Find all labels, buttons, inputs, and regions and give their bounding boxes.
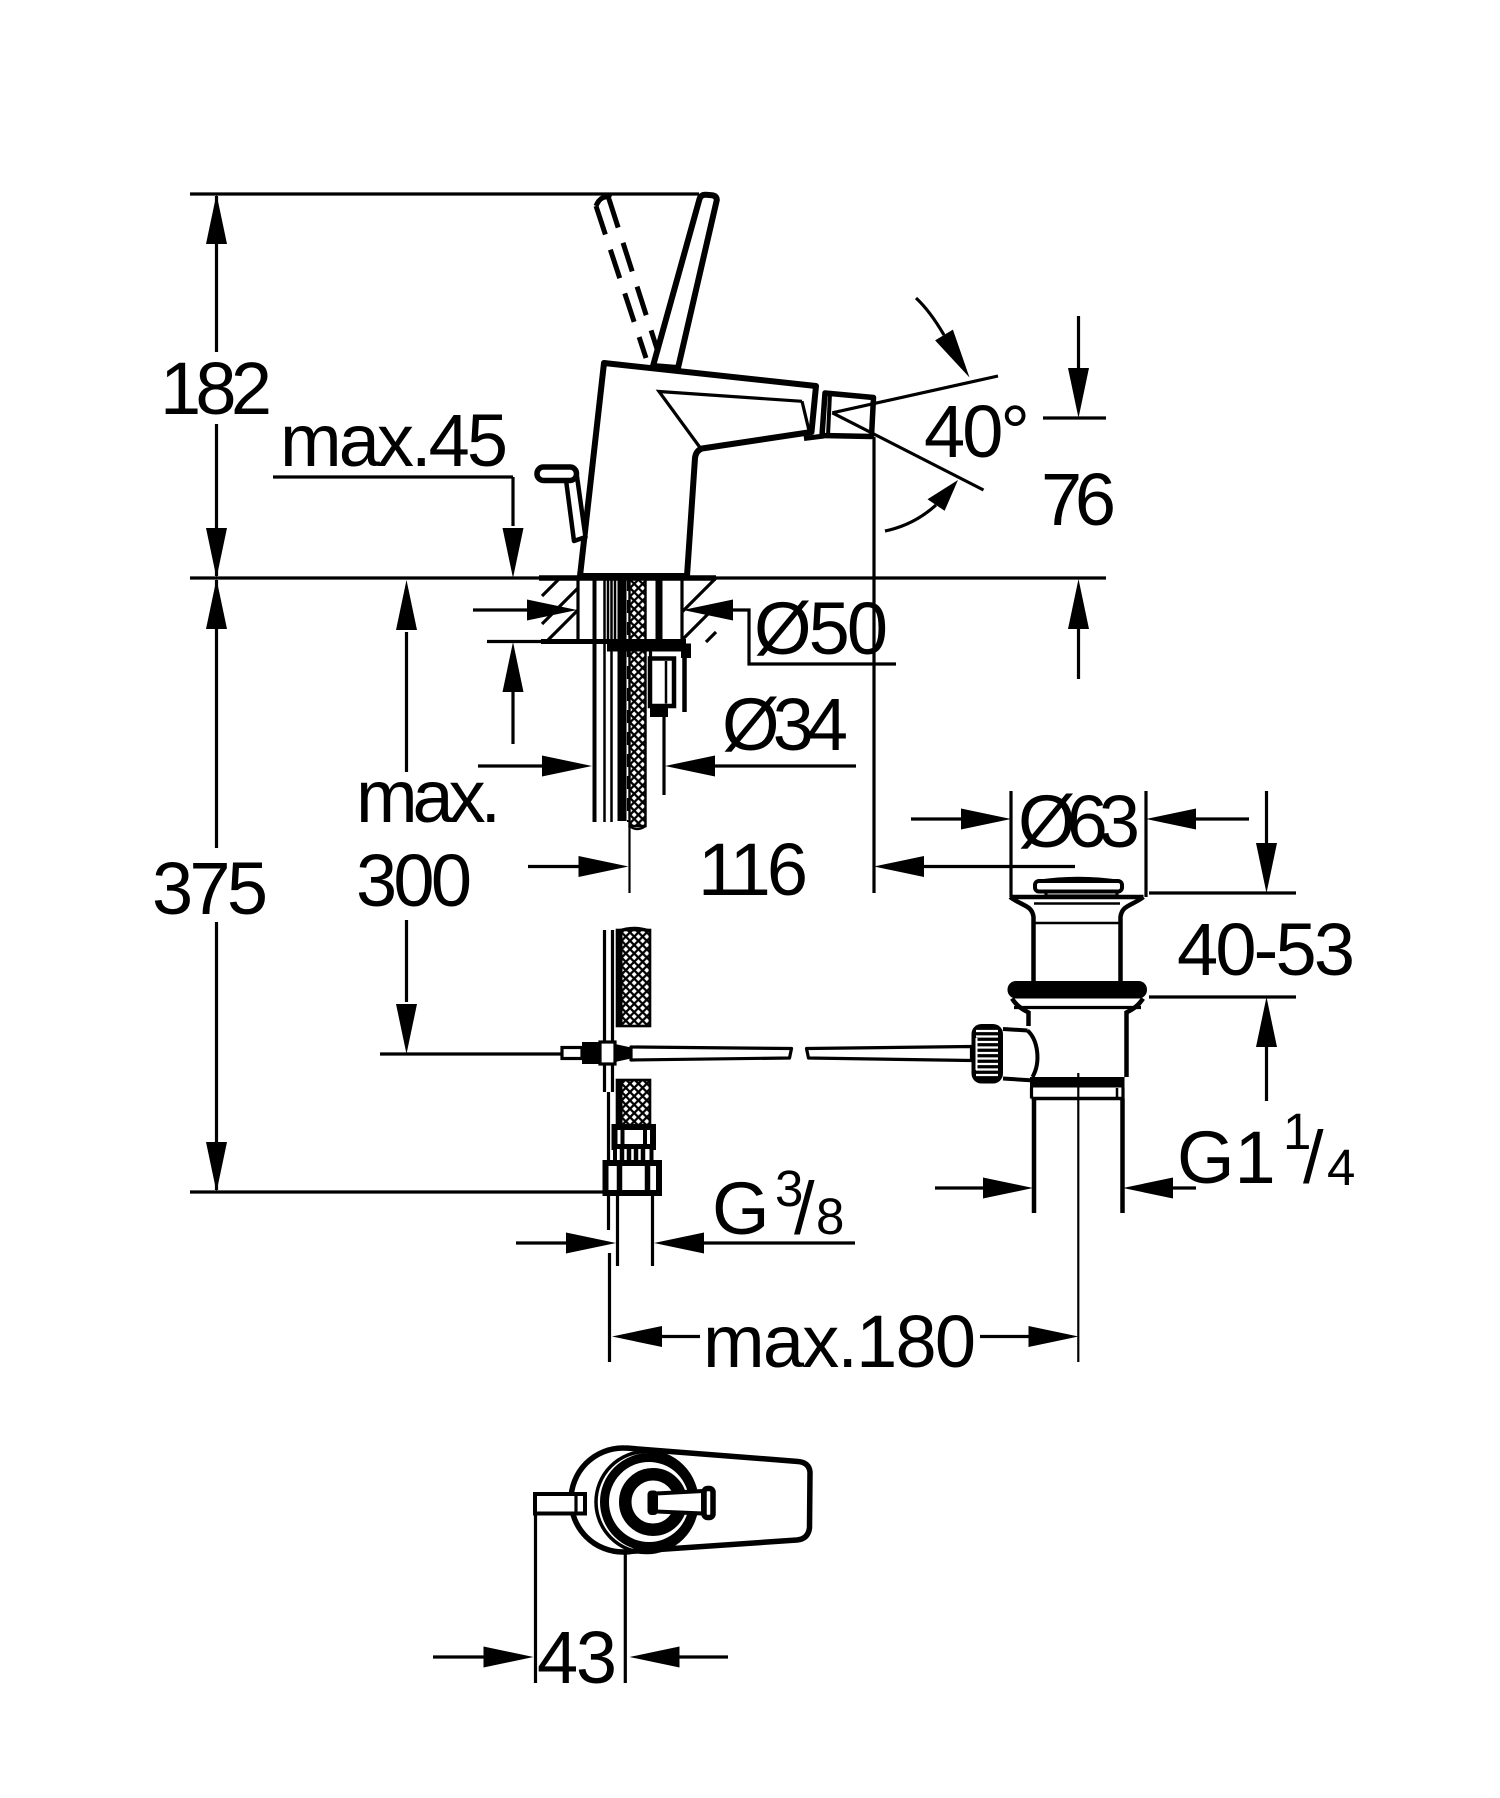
svg-text:40°: 40° [924,390,1030,473]
drain O-ring [1008,981,1148,999]
svg-text:43: 43 [537,1616,617,1699]
hose ribbed section [615,1147,652,1163]
svg-text:375: 375 [152,847,268,930]
svg-text:max.45: max.45 [280,399,508,482]
pop-up rod vertical guide [605,930,613,1092]
dimension 182 [160,194,272,578]
svg-text:Ø63: Ø63 [1018,780,1140,863]
drain centerline [1077,1073,1079,1362]
countertop reference line [190,576,1106,579]
dimension 76 [1041,316,1116,679]
countertop section hatching right [682,578,716,642]
svg-text:116: 116 [698,828,808,911]
dimension G 3/8 [516,1160,855,1254]
dimension 375 [152,579,268,1192]
svg-text:300: 300 [356,839,472,922]
dimension G1 1/4 [935,1103,1355,1199]
temperature lever [537,467,586,541]
drain plunger cap [1035,879,1122,897]
shank dashed centerline [627,578,629,822]
top view body outline [571,1448,810,1552]
svg-text:8: 8 [816,1188,844,1245]
top view pin [535,1494,585,1514]
faucet spout inner face [659,392,810,448]
dimension D50 [473,587,896,670]
faucet centerline extension [628,826,630,893]
dimension max.45 [273,399,524,744]
svg-text:G1: G1 [1177,1116,1276,1199]
aerator tip [822,393,874,437]
svg-text:G: G [712,1167,770,1250]
svg-text:/: / [794,1167,815,1250]
hose collar nut [615,1127,654,1147]
pop-up rod clamp [562,1042,631,1064]
shank right black line [656,578,663,642]
dimension max.180 [610,1253,1079,1383]
top view outer ring [596,1452,697,1553]
svg-text:max.180: max.180 [703,1300,976,1383]
pop-up rod lower extension [607,1092,610,1230]
top view inner ring [625,1474,681,1530]
supply hose braid (upper segment) [630,578,646,829]
supply hose braid (lower segment) [617,928,650,1127]
drain valve collar [1003,1029,1037,1081]
svg-text:182: 182 [160,347,272,430]
countertop section hatching left [542,578,578,642]
horizontal pop-up rod (left segment) [631,1047,792,1060]
svg-text:40-53: 40-53 [1177,908,1355,991]
extension line top (182 upper reference) [190,192,699,195]
svg-text:4: 4 [1327,1139,1355,1196]
handle (dashed alternate position) [596,197,658,358]
drain body bottom rings [1030,1077,1125,1099]
drain knurled knob [972,1024,1004,1084]
top view stem [648,1489,714,1518]
drain tailpipe [1034,1099,1123,1214]
drain body top and neck [1010,897,1144,981]
mounting hole edges [578,578,682,642]
dimension D63 [911,780,1249,897]
dimension D34 [478,683,856,777]
dimension 43 [433,1514,728,1700]
drain body flange and sides [1012,999,1143,1078]
top view thick ring [605,1458,694,1547]
countertop section bottom edge [487,640,686,643]
svg-text:Ø50: Ø50 [754,587,888,670]
mounting washer [607,644,691,713]
dimension max.300 [356,580,564,1054]
hose hex nut [606,1163,660,1193]
dimension 40-53 [1149,791,1355,1101]
handle (solid position) [653,195,717,368]
faucet body [580,363,824,576]
pop-up rod housing (black column) [618,578,627,821]
svg-text:76: 76 [1041,458,1116,541]
extension line bottom (375 lower reference) [190,1190,608,1193]
hose G3/8 tube [618,1193,653,1266]
dimension 116 [528,828,1075,911]
svg-text:/: / [1303,1116,1324,1199]
faucet shank chrome lines [595,578,616,822]
svg-text:Ø34: Ø34 [722,683,848,766]
extension line spout tip [872,437,875,893]
pop-up rod connector block [650,652,674,796]
horizontal pop-up rod (right segment) [807,1047,972,1061]
dimension 40 degrees [832,298,1030,531]
